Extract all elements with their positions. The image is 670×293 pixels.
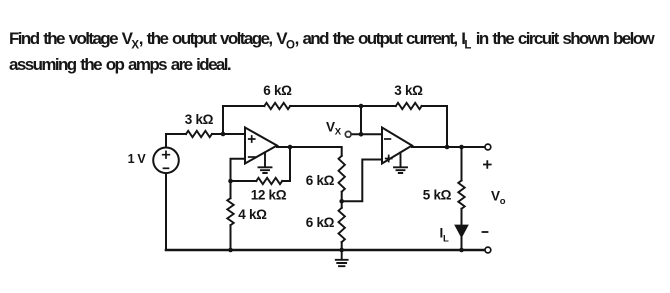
svg-text:6 kΩ: 6 kΩ — [263, 83, 292, 98]
op-amp U2 plus marker — [386, 156, 392, 162]
node Vx terminal circle — [345, 131, 351, 137]
svg-text:Vo: Vo — [491, 189, 506, 208]
ground under op-amp U1 — [259, 153, 272, 174]
svg-text:VX: VX — [326, 120, 342, 138]
wire: op1 - input loop — [231, 159, 246, 181]
output minus polarity marker — [483, 231, 488, 233]
wire: IL arrow to rail — [461, 237, 463, 250]
op-amp U1 triangle — [245, 128, 277, 164]
output plus polarity marker — [484, 161, 491, 168]
wire: 12k left lead — [231, 180, 257, 182]
wire: divider bottom to rail — [341, 242, 343, 250]
svg-text:12 kΩ: 12 kΩ — [251, 188, 287, 203]
wire: 3k to op1 + input — [212, 133, 245, 135]
current IL arrow — [454, 225, 469, 239]
op-amp U1 plus marker — [249, 136, 255, 142]
wire: source top to 3k — [166, 134, 186, 148]
output terminal bottom circle — [485, 247, 491, 253]
svg-text:1 V: 1 V — [128, 152, 147, 166]
resistor R1 3k input — [186, 131, 212, 137]
wire: node A vertical stub — [222, 106, 224, 134]
output terminal top circle — [485, 144, 491, 150]
voltage source V1 circle — [153, 148, 179, 174]
problem statement line 2 — [9, 55, 230, 75]
node: load branch junction dot — [459, 145, 464, 150]
svg-text:4 kΩ: 4 kΩ — [238, 207, 267, 222]
svg-text:6 kΩ: 6 kΩ — [306, 173, 335, 188]
voltage source V1 plus marker — [163, 151, 170, 158]
node: op1 minus / 12k / 4k junction dot — [228, 179, 233, 184]
svg-text:IL: IL — [440, 226, 449, 245]
wire: load branch top lead — [461, 147, 463, 181]
node: feedback at op2 output junction dot — [445, 145, 450, 150]
wire: source bottom to bottom rail — [165, 173, 167, 250]
svg-text:3 kΩ: 3 kΩ — [185, 112, 214, 127]
resistor R7 6k lower divider — [339, 208, 345, 242]
svg-text:3 kΩ: 3 kΩ — [394, 83, 423, 98]
wire: divider middle — [341, 192, 343, 208]
node: top rail / Vx drop junction dot — [359, 104, 364, 109]
wire: top rail left segment (node A to 6k) — [223, 105, 264, 107]
wire: 4k top lead — [230, 181, 232, 198]
node: Vx wire junction dot — [359, 132, 364, 137]
node: load at bottom rail junction dot — [459, 248, 464, 253]
resistor R5 6k upper divider — [339, 156, 345, 192]
op-amp U2 triangle — [382, 128, 412, 164]
wire: 12k right lead up to op1 output — [282, 147, 290, 181]
op-amp U1 minus marker — [249, 156, 255, 158]
resistor R4 4k to ground rail — [227, 198, 233, 225]
svg-text:6 kΩ: 6 kΩ — [306, 215, 335, 230]
problem statement line 1 — [9, 29, 653, 51]
node: divider at bottom rail junction dot — [339, 248, 344, 253]
node A junction dot — [221, 132, 226, 137]
wire: top rail right segment and drop to op2 output — [422, 106, 447, 147]
node: 4k at bottom rail junction dot — [228, 248, 233, 253]
wire: divider mid tap to op2 + input — [342, 160, 382, 202]
voltage source V1 minus marker — [164, 167, 169, 169]
wire: top rail middle segment — [290, 105, 396, 107]
resistor R8 5k load — [458, 181, 464, 209]
node: op1 output / 12k junction dot — [288, 145, 293, 150]
resistor R2 6k top feedback — [264, 103, 290, 109]
wire: 4k bottom lead — [230, 225, 232, 250]
resistor R6 3k top right — [396, 103, 422, 109]
node: divider mid junction dot — [339, 199, 344, 204]
wire: op1 output to divider top — [277, 147, 342, 156]
ground under op-amp U2 — [394, 153, 407, 174]
op-amp U2 minus marker — [385, 138, 391, 140]
svg-text:5 kΩ: 5 kΩ — [423, 188, 452, 203]
wire: top rail drop to Vx wire — [360, 106, 362, 134]
ground below bottom rail — [336, 250, 348, 266]
wire: op2 output to terminal — [412, 146, 485, 148]
wire: bottom rail — [166, 249, 485, 252]
resistor R3 12k feedback — [256, 178, 282, 184]
wire: 5k to IL arrow — [461, 209, 463, 225]
wire: Vx node to op2 - input — [351, 133, 382, 135]
